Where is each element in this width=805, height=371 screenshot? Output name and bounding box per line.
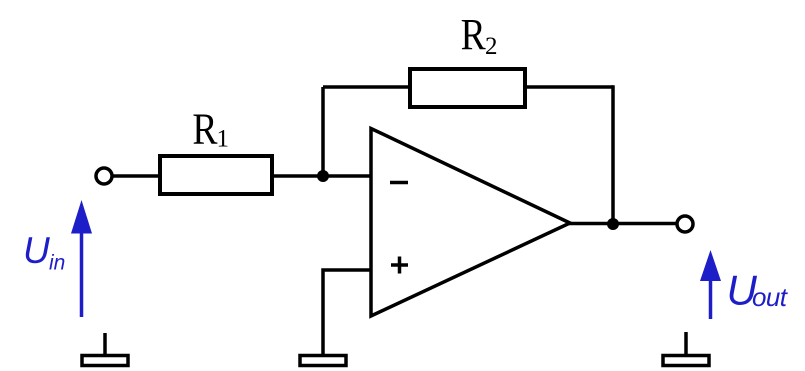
svg-text:1: 1 [217, 126, 230, 153]
svg-text:U: U [23, 230, 50, 271]
svg-text:R: R [461, 10, 487, 58]
svg-text:2: 2 [485, 33, 498, 60]
svg-text:R: R [192, 105, 218, 153]
svg-text:out: out [752, 282, 789, 312]
svg-text:in: in [49, 252, 65, 275]
